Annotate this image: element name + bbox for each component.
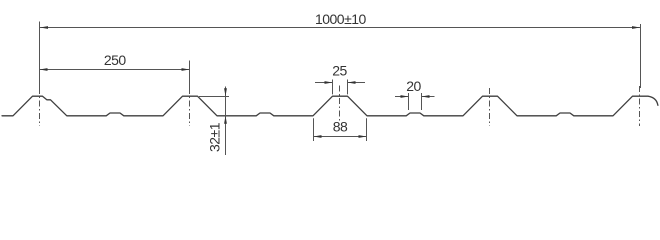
sheet profile outline [2, 96, 658, 116]
centerline rib 5 [639, 86, 641, 126]
svg-text:1000±10: 1000±10 [315, 11, 367, 27]
dimension 32±1 [199, 87, 229, 156]
centerline rib 2 [189, 88, 191, 126]
svg-text:32±1: 32±1 [207, 122, 223, 152]
centerline rib 3 [339, 86, 341, 121]
svg-text:88: 88 [333, 119, 348, 135]
dimension 20 [395, 93, 435, 110]
svg-text:20: 20 [406, 78, 421, 94]
dimension 1000±10 [40, 22, 641, 92]
centerline rib 1 [39, 88, 41, 126]
svg-text:25: 25 [332, 63, 347, 79]
dimension 25 [315, 80, 365, 95]
dimension 250 [40, 61, 190, 92]
dimension 88 [314, 118, 367, 141]
svg-text:250: 250 [104, 52, 127, 68]
centerline rib 4 [489, 88, 491, 126]
